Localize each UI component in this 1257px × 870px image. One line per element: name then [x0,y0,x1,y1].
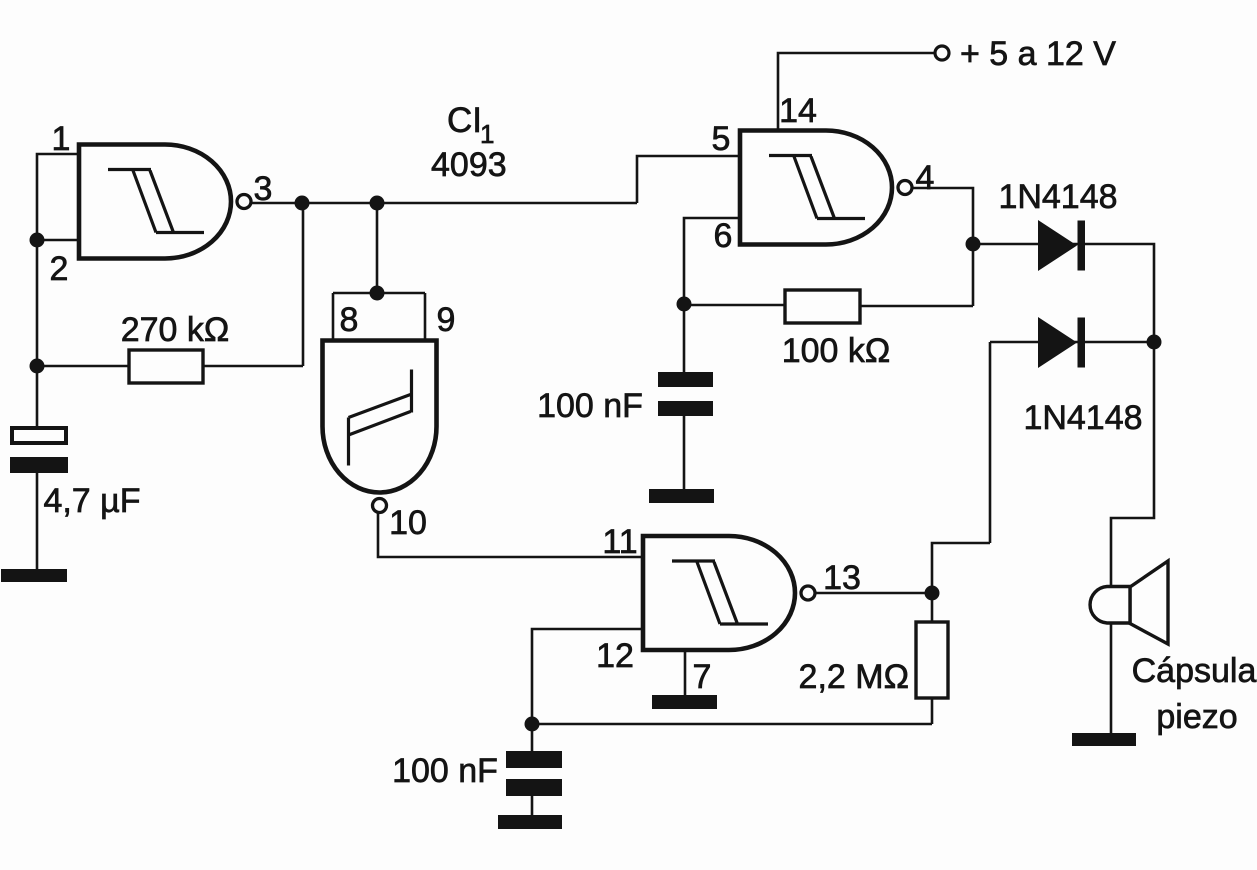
svg-text:10: 10 [389,504,427,542]
svg-text:1N4148: 1N4148 [1023,399,1142,437]
svg-text:270 kΩ: 270 kΩ [121,311,230,349]
svg-text:7: 7 [693,658,712,696]
svg-text:100 nF: 100 nF [392,752,498,790]
svg-text:5: 5 [712,120,731,158]
svg-text:9: 9 [437,301,456,339]
svg-text:2: 2 [50,250,69,288]
svg-text:1N4148: 1N4148 [998,178,1117,216]
svg-text:Cápsula: Cápsula [1132,652,1257,690]
svg-text:13: 13 [823,559,861,597]
svg-text:8: 8 [340,301,359,339]
svg-text:11: 11 [602,523,637,561]
svg-text:2,2 MΩ: 2,2 MΩ [799,658,909,696]
svg-text:100 nF: 100 nF [537,387,643,425]
svg-text:1: 1 [52,120,71,158]
svg-text:4093: 4093 [431,146,507,184]
svg-text:+ 5 a 12 V: + 5 a 12 V [960,35,1116,73]
svg-text:4,7 µF: 4,7 µF [43,482,140,520]
svg-text:6: 6 [714,217,733,255]
svg-text:1: 1 [480,119,494,149]
svg-text:100 kΩ: 100 kΩ [782,332,891,370]
svg-text:3: 3 [254,170,273,208]
svg-text:4: 4 [916,159,935,197]
svg-text:CI: CI [447,101,482,140]
svg-text:14: 14 [779,92,817,130]
svg-text:12: 12 [596,637,634,675]
svg-text:piezo: piezo [1156,698,1237,736]
